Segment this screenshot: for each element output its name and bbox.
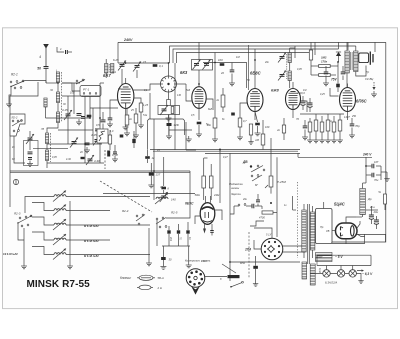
wire lamp bus [310, 272, 356, 274]
wire choke label [367, 197, 372, 201]
label 30k b [160, 185, 166, 189]
capacitor C34 50 [240, 261, 258, 269]
label v15 [320, 93, 325, 96]
contact J1 [238, 204, 246, 206]
svg-text:240 V: 240 V [362, 153, 372, 157]
wire v3 top [254, 60, 256, 89]
core dash 1 [60, 72, 62, 122]
svg-text:50: 50 [37, 67, 41, 71]
ground G18 [302, 134, 308, 140]
svg-text:6-25: 6-25 [113, 58, 119, 62]
ground G32 [253, 281, 258, 286]
capacitor C7 [81, 157, 85, 159]
trimmer C12 [133, 62, 141, 72]
svg-text:1М: 1М [255, 138, 260, 142]
svg-text:Ц: Ц [330, 120, 332, 123]
label 4 [39, 55, 41, 59]
wire mid bus 3 [298, 153, 372, 157]
wire v3 left [240, 103, 247, 118]
svg-text:2к: 2к [276, 128, 281, 132]
resistor R5 [197, 122, 202, 125]
wire pot dn [270, 187, 272, 194]
svg-text:~ 5 V: ~ 5 V [335, 255, 343, 259]
resistor R15 170k [319, 60, 331, 77]
svg-text:0,25: 0,25 [320, 93, 325, 96]
label 03A [318, 268, 322, 274]
resistor R32 jack [228, 275, 240, 278]
wire bank vert a [84, 96, 86, 163]
power transformer T1 winding 2 [310, 212, 315, 250]
wire c26 [150, 163, 152, 182]
label v10 [191, 114, 195, 117]
wire choke up [363, 183, 366, 217]
wire bus drop left [117, 42, 119, 63]
ground G28 [21, 263, 27, 269]
svg-text:170к: 170к [321, 60, 328, 64]
label v24 [112, 71, 117, 74]
svg-text:Пр: Пр [320, 225, 324, 229]
resistor R30 4700 [259, 211, 273, 220]
IF transformer T1 winding a [105, 64, 108, 74]
label 6B8S [250, 71, 262, 76]
trimmer C15 [193, 60, 211, 70]
wire bank top row [62, 82, 80, 84]
wire bus drop a [214, 53, 216, 63]
svg-text:240к: 240к [213, 194, 220, 197]
junction dot 220 [219, 149, 221, 151]
svg-text:137: 137 [156, 173, 161, 177]
resistor R14 1M2 [319, 56, 331, 68]
junction F [13, 179, 18, 184]
label v14 [303, 89, 306, 92]
label v23 [369, 206, 375, 209]
capacitor C30 10 [186, 230, 191, 240]
filter choke L14 [360, 189, 366, 215]
wire r11 dn [251, 112, 258, 140]
label 51V [266, 233, 272, 237]
wire v2 right [206, 99, 213, 110]
label v7 [130, 109, 134, 112]
svg-text:5Ц4С: 5Ц4С [334, 202, 346, 207]
dial lamp HL3 [349, 270, 356, 277]
legend fuse 2 [137, 285, 153, 290]
svg-text:6к8: 6к8 [208, 107, 213, 111]
tone capacitor C21 [372, 82, 375, 90]
dial lamp HL2 [337, 270, 344, 277]
block RC box [24, 141, 39, 166]
capacitor C6 [85, 143, 90, 145]
wire band row 2 [66, 210, 110, 212]
trimmer C18 [278, 71, 286, 81]
coil L4 [56, 112, 59, 123]
wire caps bus [162, 245, 190, 247]
label 6A7 [103, 73, 111, 78]
svg-text:130: 130 [177, 94, 182, 97]
wire dial right a [283, 245, 306, 247]
wire antenna down [45, 68, 47, 83]
switch jack lever [230, 281, 243, 287]
resistor R37 [215, 95, 225, 107]
wire r12 [283, 118, 285, 140]
capacitor C24 [101, 112, 106, 130]
wire band row left 5 [32, 247, 54, 255]
tube V4 6Zh8 [286, 89, 301, 110]
wire row2 [47, 143, 102, 145]
wire box up1 [149, 93, 151, 119]
wire bank row y96 [62, 95, 100, 97]
svg-text:6А7: 6А7 [103, 73, 111, 78]
label v3 [40, 128, 45, 131]
svg-text:Звукосн.: Звукосн. [231, 192, 242, 196]
output transformer T3 secondary [354, 51, 358, 72]
label v8 [144, 89, 148, 92]
wire t3 sec top [355, 46, 357, 51]
label 15 [143, 60, 147, 64]
trimmer coil L13 140 [155, 193, 176, 204]
svg-text:Гр: Гр [366, 70, 370, 74]
ground G7 [138, 122, 144, 128]
svg-text:5к6: 5к6 [186, 88, 191, 92]
vertical pair b [73, 83, 75, 114]
label 5V-A [158, 276, 164, 280]
label v2 [63, 103, 66, 106]
svg-text:РГ-1: РГ-1 [83, 88, 90, 92]
capacitor C46 [341, 66, 346, 80]
dashed vert right [297, 182, 299, 258]
label 4-30 [94, 159, 100, 163]
wire r27 up [204, 158, 208, 176]
wire lamp stub2 [340, 266, 342, 270]
tube V7 5Ts4S [336, 223, 358, 239]
wire rg1 left [62, 83, 80, 91]
band coil L9 [53, 205, 66, 216]
wire trim down b [136, 70, 138, 78]
capacitor C32 [252, 204, 254, 209]
wire c31 [162, 246, 164, 264]
resistor R31 [384, 194, 387, 204]
coil L2 [56, 72, 59, 83]
wire c8 [29, 131, 31, 150]
core dash t2 [286, 54, 288, 79]
svg-text:0,05: 0,05 [297, 68, 302, 71]
label 1437 [344, 115, 350, 119]
wire v6 dn [204, 224, 206, 229]
label v25 [66, 158, 71, 161]
wire v2 top [198, 42, 200, 86]
ground G24 [337, 137, 343, 143]
tube V2 6K3 [192, 87, 206, 109]
resistor R3 0.1M [153, 64, 164, 68]
label 4-15 a [62, 108, 68, 112]
capacitor C33 [256, 194, 260, 206]
dot j2 [270, 202, 272, 204]
label v1 [49, 89, 54, 92]
label 1 [60, 47, 62, 51]
svg-text:20u: 20u [373, 210, 379, 214]
wire lamp stub3 [352, 266, 354, 270]
label 240V [123, 38, 133, 42]
wire audio a [234, 205, 262, 207]
wire dial left [254, 240, 261, 249]
IF transformer T1 winding b [111, 64, 114, 74]
ground G23 [331, 137, 337, 143]
wire c20 [337, 62, 339, 92]
wire r9 dn [214, 128, 216, 136]
label 0p5 [96, 123, 100, 127]
tube V5 6P6S [340, 88, 356, 112]
wire v4 top [292, 82, 294, 89]
wire v5 dn [347, 112, 349, 121]
svg-text:М 6-38 №52: М 6-38 №52 [84, 239, 99, 243]
core T1 [308, 204, 310, 264]
wire r7 up [135, 108, 137, 114]
wire v mid b [163, 190, 165, 194]
wire v1 right pin [134, 98, 142, 103]
wire lamp bus2 [317, 255, 371, 265]
wire y1935 [103, 193, 195, 195]
resistor R36 [167, 100, 171, 111]
wire r13 dn [262, 145, 264, 150]
resistor R10 [238, 118, 253, 135]
wire v7 top [346, 217, 356, 223]
svg-text:М 6-38 №52: М 6-38 №52 [84, 224, 99, 228]
svg-text:5 1У: 5 1У [266, 233, 272, 237]
label 6k8 [208, 107, 213, 111]
svg-text:6,3А/22/А: 6,3А/22/А [325, 281, 337, 285]
AVC dashed [104, 150, 106, 169]
wire bank vert b [92, 108, 94, 144]
ground G20 [313, 137, 319, 143]
wire r13 up [262, 120, 264, 134]
wire r5 dn [198, 125, 200, 131]
tube V3 6B8S [247, 89, 263, 112]
capacitor C47 [210, 224, 214, 236]
svg-text:Л5: Л5 [40, 128, 45, 131]
resistor R12 2k [276, 125, 286, 133]
svg-text:0,05: 0,05 [52, 156, 57, 159]
svg-text:6К3: 6К3 [180, 70, 188, 75]
wire l5a dn [45, 107, 47, 118]
label 6-25 [113, 58, 119, 62]
wire v mid a [163, 157, 165, 186]
wire switch to coils [25, 80, 46, 82]
resistor R35 blk [132, 139, 135, 143]
output transformer T3 primary [345, 51, 349, 73]
wire c19 [325, 66, 327, 80]
wire c2 stub [68, 51, 72, 53]
wire t1a [105, 59, 107, 78]
svg-text:к мех.: к мех. [201, 260, 208, 263]
core dash 2 [49, 133, 51, 162]
svg-text:70и: 70и [374, 178, 379, 182]
svg-text:Л2: Л2 [49, 89, 54, 92]
label 5k6 [186, 88, 191, 92]
wire trim down a [121, 69, 123, 85]
label 6Zh8 [271, 89, 280, 93]
step wire [250, 221, 264, 226]
ground G1 [6, 101, 12, 107]
capacitor C42 20.0 [301, 96, 306, 110]
wire band row 4 [66, 239, 110, 241]
resistor R2 [87, 115, 92, 118]
wire vert 277 [276, 157, 278, 237]
capacitor C10 [28, 158, 32, 160]
label 20n [220, 71, 224, 75]
trimmer C4-15 a [64, 110, 72, 120]
wire vert 220 [219, 150, 221, 203]
ground G27 [148, 182, 154, 188]
label 6K3 [180, 70, 188, 75]
wire dial right b [283, 251, 306, 253]
resistor R18 [314, 114, 318, 137]
wire v2 grid link [100, 82, 104, 84]
ground G8 [166, 115, 172, 121]
wire r35 [133, 131, 135, 148]
wire v4 dn [292, 110, 294, 119]
resistor R25 1k [145, 156, 155, 160]
trimmer C4-15 b [93, 136, 101, 146]
svg-text:Я2-3: Я2-3 [13, 212, 21, 216]
wire v5 left [330, 88, 339, 96]
label v19 [222, 118, 225, 121]
wire band rail [69, 201, 71, 263]
wire box v1 [147, 135, 149, 150]
wire r37 [222, 88, 224, 112]
resistor R11 [255, 123, 260, 126]
capacitor C35 20u [369, 210, 379, 224]
resistor R34 [125, 109, 129, 131]
label 2N [157, 286, 163, 290]
label v13 [297, 68, 302, 71]
IF transformer T2 winding b [288, 71, 291, 81]
label 2M [102, 129, 107, 133]
label v22 [284, 204, 287, 207]
arrow lamp [357, 269, 364, 271]
wire ya22 down [13, 136, 15, 152]
wire row1 [46, 117, 91, 119]
svg-text:М50: М50 [240, 261, 246, 265]
label 4-15 b [91, 133, 97, 137]
wire ps h3 [357, 234, 386, 242]
svg-text:MINSK R7-55: MINSK R7-55 [27, 279, 91, 290]
label 5Ts4S [334, 202, 346, 207]
wire t2 mid [289, 63, 291, 72]
svg-text:Я2-1: Я2-1 [10, 73, 18, 77]
ground G29 [67, 263, 73, 269]
label 125 [143, 103, 149, 107]
svg-text:4-15: 4-15 [62, 108, 68, 112]
wire band row 1 [66, 196, 150, 198]
resistor R17 [308, 118, 312, 137]
wire to v3 [232, 45, 249, 90]
ground G2 [76, 119, 82, 125]
wire t2 up [290, 48, 295, 53]
wire trim row [118, 62, 148, 64]
svg-text:1437: 1437 [344, 115, 350, 119]
svg-text:Я2-5: Я2-5 [170, 211, 178, 215]
vertical pair a [67, 96, 69, 144]
ground G35 [358, 278, 363, 283]
wire v46 down [46, 81, 58, 84]
svg-text:ДВ: ДВ [242, 160, 248, 164]
ground G30 [146, 260, 152, 266]
wire box loop [148, 119, 185, 135]
capacitor C28 200 [167, 230, 172, 241]
wire coil chain3 [46, 144, 48, 151]
wire band row left 3 [32, 217, 54, 225]
wire v1 cath [125, 109, 127, 125]
label v11 [247, 79, 250, 82]
capacitor C20 black [336, 84, 340, 88]
svg-text:20и: 20и [242, 198, 248, 201]
svg-text:10Т: 10Т [374, 160, 379, 164]
wire bus 2 [170, 46, 356, 63]
wire osc down [168, 92, 170, 100]
label 240V b [362, 153, 372, 157]
core T3 [351, 52, 353, 70]
coil L6 [45, 150, 48, 161]
svg-text:Р-25М: Р-25М [277, 180, 286, 184]
wire r25 [147, 150, 149, 163]
svg-text:4-15: 4-15 [91, 133, 97, 137]
wire bus drop d [314, 42, 316, 55]
capacitor C38 70n [366, 173, 381, 182]
label 2x20 [296, 91, 305, 95]
ground G19 [307, 137, 313, 143]
ground G5 [123, 124, 129, 130]
label 047 [223, 156, 228, 159]
svg-text:75V: 75V [331, 78, 338, 82]
wire v1 left pin [110, 100, 118, 118]
arrow v6 [203, 229, 206, 234]
svg-text:Др: Др [367, 197, 372, 201]
power transformer T1 box [316, 209, 333, 244]
switch S2 contacts [76, 79, 85, 84]
wire caps dn [169, 234, 188, 246]
label v26 [12, 146, 15, 149]
wire vert 230 [229, 153, 231, 281]
svg-text:УВ: УВ [326, 229, 330, 233]
capacitor C13 [108, 118, 113, 120]
wire r16 [311, 42, 338, 75]
svg-text:4700: 4700 [259, 216, 265, 220]
resistor R8 100 [218, 58, 224, 66]
band coil L11 [53, 234, 66, 245]
capacitor C44 blk [231, 113, 235, 116]
wire osc right [177, 83, 187, 85]
wire bus drop b [254, 49, 256, 60]
capacitor C22 [303, 120, 308, 134]
svg-text:0,5: 0,5 [96, 123, 100, 127]
wire mid bus 2 [205, 152, 300, 154]
label SK VTs [365, 77, 373, 81]
wire r3 wire [148, 62, 168, 64]
wire t1 top lead [293, 196, 296, 210]
ground G9 [196, 131, 202, 137]
wire osc up [168, 63, 170, 76]
label 100p [70, 91, 75, 95]
wire bank row y108 [90, 107, 118, 109]
wire caps bus dn [188, 246, 190, 262]
capacitor C26 0.25 [149, 172, 161, 176]
wire left long2 [153, 171, 155, 200]
wire g34 [9, 172, 11, 207]
wire v5 top [347, 84, 349, 88]
label v12 [264, 61, 270, 64]
wire coil bottom [46, 161, 48, 169]
ground G22 [325, 137, 331, 143]
wire rc row [33, 148, 68, 150]
